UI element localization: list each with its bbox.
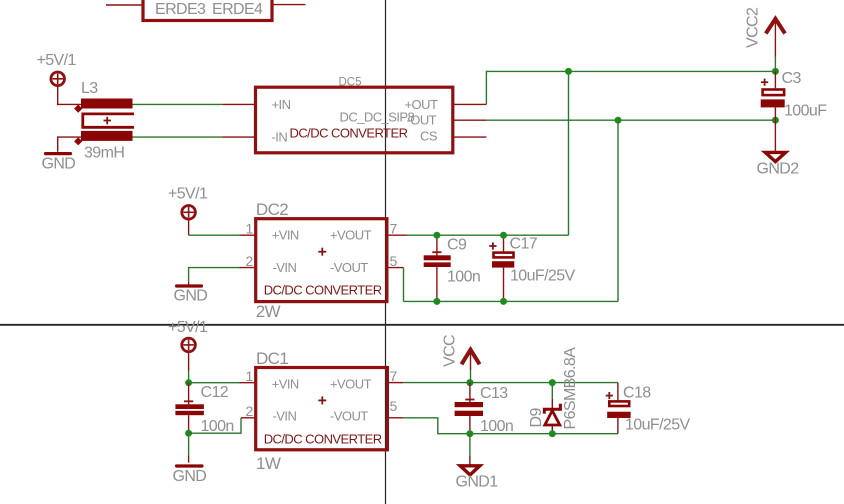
svg-text:C9: C9 [447, 237, 467, 254]
label ERDE3 [155, 1, 206, 18]
svg-text:-VIN: -VIN [273, 409, 297, 424]
svg-text:CS: CS [420, 129, 438, 144]
junction dot C9 top [433, 232, 440, 239]
svg-text:VCC: VCC [441, 335, 458, 367]
wire net RTN1 horizontal to DC2 pin 5 [404, 300, 619, 302]
DC/DC converter DC2 body [256, 219, 387, 302]
DC2 pin label +VIN [272, 228, 299, 243]
junction dot C12 bottom [185, 430, 192, 437]
svg-text:100n: 100n [447, 269, 480, 286]
label VCC2 (vertical) [744, 7, 761, 48]
svg-text:-VIN: -VIN [273, 260, 297, 275]
svg-text:GND: GND [42, 156, 76, 173]
svg-text:+VIN: +VIN [272, 228, 299, 243]
wire DC2 pin 2 to GND [189, 268, 240, 282]
svg-text:39mH: 39mH [84, 145, 124, 162]
junction dot C13 bottom [466, 430, 473, 437]
wire stub right of ERDE box [274, 4, 306, 6]
DC1 pin label -VIN [273, 409, 297, 424]
label L3 [81, 80, 98, 97]
svg-text:5: 5 [390, 398, 398, 414]
wire +5V/1 to DC2 pin 1 [189, 219, 240, 235]
wire net VCC: DC1 pin 7 to C18 [403, 382, 618, 384]
supply +5V/1 (top left) [37, 52, 77, 86]
DC2 polarity + mark [318, 248, 326, 256]
DC2 text DC/DC CONVERTER [264, 283, 382, 298]
diode D9 (zener P6SMB6.8A) [544, 383, 560, 434]
DC5 pin +OUT stub [453, 103, 487, 105]
svg-text:7: 7 [390, 368, 398, 384]
wire L3 to DC5 +IN [133, 103, 223, 105]
DC1 pin label -VOUT [330, 409, 368, 424]
svg-text:1: 1 [246, 221, 254, 237]
svg-text:C12: C12 [201, 384, 229, 401]
DC1 pin number 1 [246, 368, 254, 384]
DC5 pin label -IN [272, 129, 288, 144]
label 100n (C9) [447, 269, 480, 286]
junction dot C9 bottom [433, 298, 440, 305]
DC2 pin 1 stub [240, 234, 256, 236]
label ERDE4 [212, 1, 263, 18]
svg-text:VCC2: VCC2 [744, 7, 761, 48]
svg-text:2: 2 [246, 253, 254, 269]
svg-text:L3: L3 [81, 80, 98, 97]
wire C12 to GND [188, 433, 190, 462]
capacitor C9 [424, 235, 451, 301]
connector ERDE box (cut off at top) [143, 0, 272, 21]
junction dot net RTN1 tee [615, 117, 622, 124]
svg-text:C3: C3 [782, 70, 802, 87]
DC5 value DC_DC_SIP8 [340, 109, 415, 124]
svg-text:P6SMB6.8A: P6SMB6.8A [562, 347, 579, 430]
frame vertical divider line [385, 0, 387, 504]
junction dot net RTN1 at C3 bottom [772, 117, 779, 124]
junction dot net VOUT1 at C3 [772, 68, 779, 75]
label C13 [480, 385, 508, 402]
capacitor C3 (polarized) [761, 71, 785, 120]
DC2 pin label -VOUT [330, 260, 368, 275]
DC1 pin number 5 [390, 398, 398, 414]
junction dot D9 top [549, 379, 556, 386]
svg-text:C18: C18 [623, 385, 651, 402]
wire L3 to DC5 -IN [133, 136, 223, 138]
svg-text:100uF: 100uF [784, 103, 827, 120]
label C18 [623, 385, 651, 402]
DC1 pin 1 stub [240, 382, 256, 384]
label C12 [201, 384, 229, 401]
svg-text:ERDE4: ERDE4 [212, 1, 263, 18]
DC5 pin label -OUT [407, 113, 437, 128]
label DC5 [339, 77, 362, 89]
svg-text:DC1: DC1 [256, 349, 288, 368]
frame horizontal divider line [0, 324, 844, 326]
DC2 pin number 7 [390, 221, 398, 237]
svg-text:7: 7 [390, 221, 398, 237]
junction dot net VOUT1 at top tee [565, 68, 572, 75]
label 39mH [84, 145, 124, 162]
DC1 polarity + mark [318, 396, 326, 404]
svg-text:D9: D9 [528, 408, 545, 428]
svg-text:GND2: GND2 [757, 161, 800, 178]
svg-text:+VOUT: +VOUT [330, 376, 372, 391]
DC2 pin number 2 [246, 253, 254, 269]
DC/DC converter DC1 body [256, 368, 388, 450]
svg-text:-VOUT: -VOUT [330, 260, 368, 275]
label C3 [782, 70, 802, 87]
DC1 pin 7 stub [387, 382, 403, 384]
svg-text:GND: GND [173, 468, 207, 485]
junction dot D9 bottom [549, 430, 556, 437]
DC2 pin label +VOUT [330, 228, 372, 243]
capacitor C17 (polarized) [489, 235, 514, 301]
DC1 text DC/DC CONVERTER [264, 432, 382, 447]
wire DC2 pin 5 down to RTN1 [403, 268, 405, 302]
DC1 pin number 7 [390, 368, 398, 384]
DC2 pin number 5 [390, 253, 398, 269]
wire net GND1 route from pin 5 [403, 418, 618, 434]
svg-text:C13: C13 [480, 385, 508, 402]
svg-text:DC_DC_SIP8: DC_DC_SIP8 [340, 109, 415, 124]
svg-text:+5V/1: +5V/1 [37, 52, 77, 69]
label C9 [447, 237, 467, 254]
wire net VOUT1 vertical drop to DC2 +VOUT row [568, 71, 570, 235]
DC5 pin label CS [420, 129, 438, 144]
DC2 value 2W [256, 302, 281, 321]
junction dot C13 top [466, 379, 473, 386]
wire DC1 pin 2 route to C12 bottom [189, 418, 241, 433]
capacitor C13 [455, 383, 483, 434]
svg-text:100n: 100n [480, 418, 513, 435]
DC1 pin label +VOUT [330, 376, 372, 391]
wire L3 pin2 to GND [58, 137, 82, 152]
svg-text:ERDE3: ERDE3 [155, 1, 206, 18]
DC2 pin number 1 [246, 221, 254, 237]
svg-text:10uF/25V: 10uF/25V [510, 268, 576, 285]
ground GND (top left supply bar) [42, 152, 76, 173]
svg-text:DC2: DC2 [256, 200, 288, 219]
wire net RTN1 vertical drop [617, 120, 619, 301]
svg-text:C17: C17 [510, 236, 538, 253]
wire net VOUT1: DC5 +OUT up and right to C3 [486, 71, 775, 104]
svg-text:+VIN: +VIN [272, 376, 299, 391]
label DC1 [256, 349, 288, 368]
ground GND (DC1 supply bar) [173, 464, 207, 485]
wire VCC2 to node [774, 57, 776, 72]
supply +5V/1 (DC2) [168, 186, 208, 220]
label 10uF/25V (C18) [625, 417, 691, 434]
svg-text:-IN: -IN [272, 129, 288, 144]
svg-text:10uF/25V: 10uF/25V [625, 417, 691, 434]
junction dot C17 top [500, 232, 507, 239]
svg-text:5: 5 [390, 253, 398, 269]
DC1 value 1W [256, 454, 281, 473]
DC5 text DC/DC CONVERTER [290, 126, 408, 141]
label 100uF [784, 103, 827, 120]
DC5 pin -IN stub [222, 136, 255, 138]
junction dot C17 bottom [500, 298, 507, 305]
DC5 pin CS stub (unconnected) [453, 136, 487, 138]
svg-text:2W: 2W [256, 302, 281, 321]
DC2 pin 7 stub [387, 234, 407, 236]
capacitor C18 (polarized) [606, 383, 631, 434]
DC1 pin 5 stub [387, 417, 403, 419]
DC5 pin label +IN [272, 97, 291, 112]
ground GND1 [456, 466, 499, 491]
label D9 (vertical) [528, 408, 545, 428]
svg-text:DC5: DC5 [339, 77, 362, 89]
label P6SMB6.8A (vertical) [562, 347, 579, 430]
DC2 pin 2 stub [240, 267, 256, 269]
DC2 pin label -VIN [273, 260, 297, 275]
wire +5V/1 to L3 pin1 [58, 86, 82, 105]
supply VCC arrow [462, 350, 480, 370]
svg-text:GND1: GND1 [456, 474, 499, 491]
svg-text:DC/DC CONVERTER: DC/DC CONVERTER [264, 283, 382, 298]
DC2 pin 5 stub [387, 267, 404, 269]
DC5 pin label +OUT [405, 97, 438, 112]
supply VCC2 arrow [766, 19, 785, 57]
label 100n (C12) [201, 418, 234, 435]
DC1 pin label +VIN [272, 376, 299, 391]
svg-text:1: 1 [246, 368, 254, 384]
svg-text:DC/DC CONVERTER: DC/DC CONVERTER [264, 432, 382, 447]
DC/DC converter DC5 body [256, 87, 453, 153]
wire C13 to GND1 [469, 434, 471, 465]
supply +5V/1 (DC1) [168, 319, 208, 352]
DC1 pin 2 stub [241, 417, 256, 419]
inductor L3 [74, 99, 134, 146]
label C17 [510, 236, 538, 253]
svg-text:GND: GND [174, 288, 208, 305]
svg-text:1W: 1W [256, 454, 281, 473]
label 100n (C13) [480, 418, 513, 435]
svg-text:-VOUT: -VOUT [330, 409, 368, 424]
capacitor C12 [175, 383, 204, 434]
DC5 pin -OUT stub [453, 119, 487, 121]
DC1 pin number 2 [246, 403, 254, 419]
label 10uF/25V (C17) [510, 268, 576, 285]
svg-text:DC/DC CONVERTER: DC/DC CONVERTER [290, 126, 408, 141]
wire +5V/1 down to node [188, 352, 190, 383]
wire stub left of ERDE box [106, 4, 142, 6]
label VCC (vertical) [441, 335, 458, 367]
DC5 pin +IN stub [222, 103, 255, 105]
ground GND (DC2 supply bar) [174, 282, 208, 305]
svg-text:2: 2 [246, 403, 254, 419]
svg-text:+VOUT: +VOUT [330, 228, 372, 243]
junction dot C12 top [185, 379, 192, 386]
wire VCC to net [470, 370, 472, 383]
wire net VOUT1 horizontal to DC2 pin 7 [407, 234, 569, 236]
svg-text:+IN: +IN [272, 97, 291, 112]
svg-text:+5V/1: +5V/1 [168, 319, 208, 336]
label DC2 [256, 200, 288, 219]
ground GND2 [757, 120, 800, 177]
wire net RTN1: DC5 -OUT right to C3 bottom [486, 119, 775, 121]
svg-text:+5V/1: +5V/1 [168, 186, 208, 203]
svg-text:100n: 100n [201, 418, 234, 435]
wire node to DC1 pin 1 [189, 382, 240, 384]
